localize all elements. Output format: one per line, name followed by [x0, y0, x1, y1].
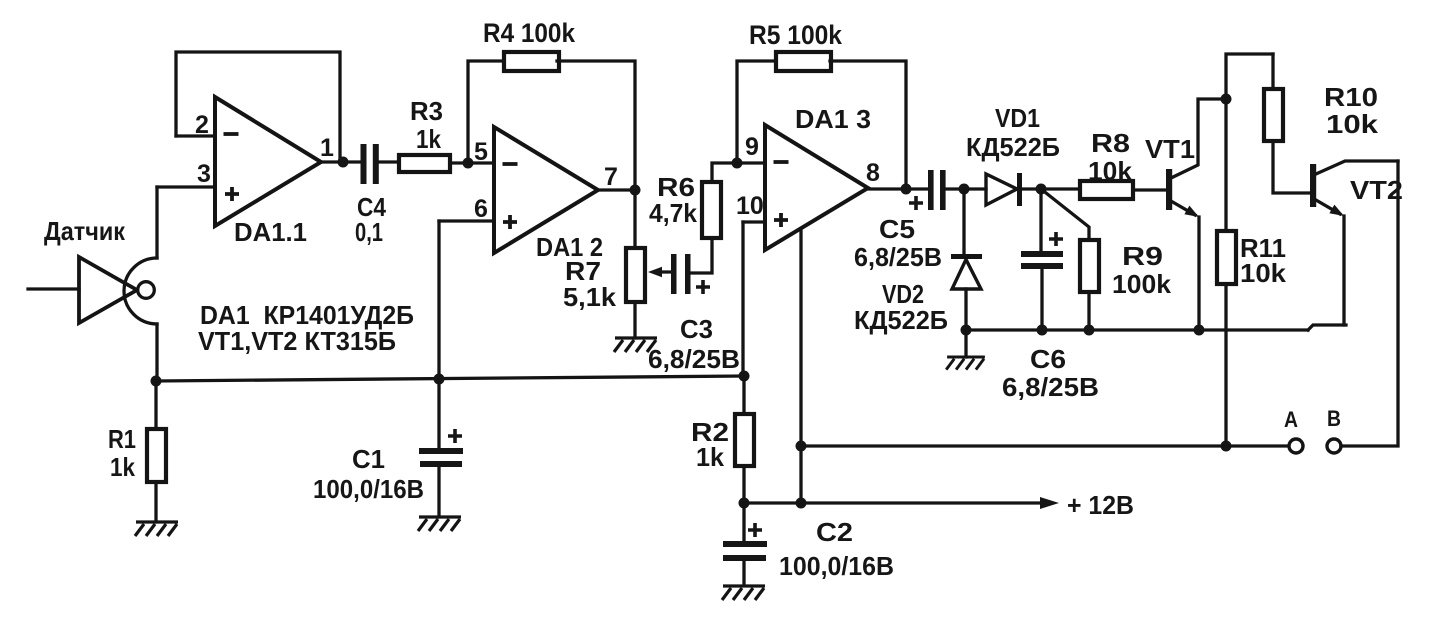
svg-text:R9: R9	[1122, 241, 1163, 271]
op-amp U DA1.1	[215, 97, 321, 226]
svg-text:VD1: VD1	[995, 103, 1040, 133]
svg-text:B: B	[1327, 406, 1341, 431]
svg-text:C5: C5	[879, 214, 915, 244]
wire bypass arc around sensor terminal	[124, 258, 157, 324]
svg-text:6,8/25В: 6,8/25В	[648, 344, 740, 374]
ground below C2	[722, 586, 765, 600]
svg-text:КД522Б: КД522Б	[854, 305, 948, 335]
transistor Q VT1 КТ315Б	[1166, 169, 1172, 210]
svg-text:VT1: VT1	[1145, 134, 1195, 164]
wire pin3 of DA1.1 down to sensor area	[155, 187, 158, 258]
capacitor C2 100,0/16В	[742, 503, 745, 584]
wire pin 6 to bus	[437, 221, 440, 379]
svg-text:100,0/16В: 100,0/16В	[313, 474, 424, 504]
svg-text:4,7k: 4,7k	[649, 198, 698, 228]
resistor R4 100k	[504, 52, 559, 71]
node pin 9 input	[732, 158, 743, 169]
wire pin 10 to bus	[741, 222, 744, 376]
node DA1.1 output	[338, 157, 349, 168]
svg-text:C6: C6	[1030, 344, 1066, 374]
capacitor C1 100,0/16В	[437, 379, 440, 517]
svg-text:6: 6	[474, 195, 488, 223]
svg-text:0,1: 0,1	[355, 217, 383, 247]
svg-text:R1: R1	[108, 424, 136, 454]
transistor Q VT2 КТ315Б	[1310, 164, 1316, 207]
resistor R1 1k	[154, 381, 157, 522]
trimmer R7 5,1k	[633, 190, 636, 338]
svg-text:VT2: VT2	[1350, 175, 1403, 205]
svg-text:100k: 100k	[1112, 269, 1172, 299]
node junction sensor/R1/bus	[151, 376, 162, 387]
svg-text:1k: 1k	[696, 442, 725, 472]
wire terminal B to VT2 collector	[1341, 161, 1398, 446]
resistor R11 10k	[1224, 99, 1227, 446]
node R2 / +12V rail	[739, 498, 750, 509]
node C6/rail	[1037, 325, 1048, 336]
node VD1/R8/R9/C6	[1036, 184, 1047, 195]
svg-text:DA1.1: DA1.1	[234, 217, 307, 247]
wire R4 feedback right	[557, 61, 635, 190]
node C5/VD1/VD2	[959, 184, 970, 195]
svg-text:R4 100k: R4 100k	[483, 18, 576, 48]
resistor R6 4,7k	[690, 163, 737, 273]
wire DA1.3 power pin down	[799, 229, 802, 503]
svg-text:8: 8	[866, 159, 880, 187]
capacitor C4 0,1	[361, 144, 367, 184]
node R11 / A-wire	[1221, 441, 1232, 452]
node bus/R2 junction	[739, 371, 750, 382]
capacitor C6 6,8/25В	[1041, 189, 1042, 330]
node pin 5 input	[463, 158, 474, 169]
node R9/rail	[1084, 325, 1095, 336]
op-amp U DA1.3	[765, 125, 868, 250]
resistor R8 10k	[1041, 189, 1167, 190]
svg-text:R3: R3	[410, 96, 443, 126]
svg-text:1k: 1k	[110, 452, 135, 482]
svg-text:100,0/16В: 100,0/16В	[779, 551, 894, 581]
svg-text:10k: 10k	[1088, 156, 1133, 186]
node VT1 emitter/rail	[1194, 325, 1205, 336]
resistor R2 1k	[742, 376, 745, 503]
svg-text:1: 1	[320, 134, 334, 162]
svg-text:VT1,VT2 КТ315Б: VT1,VT2 КТ315Б	[198, 326, 396, 356]
ground below R7	[614, 338, 657, 352]
svg-text:+ 12В: + 12В	[1067, 490, 1134, 520]
wire R5 feedback right	[830, 61, 906, 189]
ground below R1	[135, 522, 178, 536]
svg-text:3: 3	[197, 160, 211, 188]
diode VD1 КД522Б	[964, 187, 986, 190]
terminal B	[1327, 439, 1341, 453]
resistor R5 100k	[776, 52, 831, 71]
diode VD2 КД522Б	[962, 189, 965, 256]
wire ground rail	[966, 325, 1346, 330]
wire +12V to terminal A	[801, 444, 1289, 447]
node VT1 collector/R11 line	[1221, 94, 1232, 105]
op-amp U DA1.2	[494, 127, 598, 253]
svg-text:9: 9	[745, 133, 759, 161]
resistor R10 10k	[1273, 54, 1311, 193]
svg-text:6,8/25В: 6,8/25В	[854, 242, 942, 272]
svg-text:Датчик: Датчик	[44, 216, 126, 246]
svg-text:6,8/25В: 6,8/25В	[1002, 372, 1099, 402]
capacitor C5 6,8/25В	[928, 170, 934, 210]
resistor R9 100k	[1041, 189, 1089, 330]
svg-text:1k: 1k	[416, 124, 441, 154]
svg-text:10: 10	[736, 192, 764, 220]
wire DA1.1 feedback loop	[176, 52, 340, 162]
svg-text:A: A	[1284, 407, 1298, 432]
svg-text:R5 100k: R5 100k	[749, 20, 843, 50]
svg-text:C1: C1	[352, 444, 385, 474]
resistor R3 1k	[399, 155, 450, 172]
svg-text:10k: 10k	[1240, 258, 1287, 288]
node power pin / +12V rail	[796, 498, 807, 509]
wire VD2 node to ground	[964, 330, 967, 357]
node DA1.2 output	[630, 185, 641, 196]
node power pin / A-wire	[796, 441, 807, 452]
svg-text:C2: C2	[816, 517, 853, 547]
svg-text:10k: 10k	[1326, 109, 1379, 139]
terminal A	[1289, 439, 1303, 453]
svg-text:R10: R10	[1324, 82, 1378, 112]
wire main bias bus	[156, 376, 744, 381]
wire sensor to bus junction	[155, 324, 158, 381]
ground below C1	[418, 517, 461, 531]
ground below VD2	[946, 357, 985, 370]
svg-text:7: 7	[604, 163, 618, 191]
node bus/C1 junction	[434, 374, 445, 385]
svg-text:C3: C3	[680, 314, 713, 344]
wire +12V supply rail	[744, 501, 1040, 504]
sensor piezo element	[28, 287, 79, 290]
wire R5 feedback left/top	[737, 61, 776, 163]
node DA1.3 output	[901, 184, 912, 195]
wire top supply link	[1226, 54, 1273, 99]
capacitor C3 6,8/25В	[671, 254, 677, 294]
svg-text:5,1k: 5,1k	[563, 282, 617, 312]
node VD2/ground rail	[961, 325, 972, 336]
svg-text:DA1 3: DA1 3	[795, 104, 871, 134]
wire R4 feedback left/top	[468, 61, 505, 163]
svg-text:R8: R8	[1091, 128, 1130, 158]
svg-text:КД522Б: КД522Б	[966, 132, 1060, 162]
